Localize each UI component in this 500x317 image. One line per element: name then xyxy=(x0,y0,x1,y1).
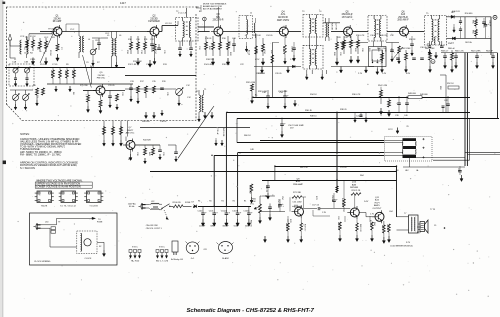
svg-text:R44 82K: R44 82K xyxy=(142,121,150,123)
svg-text:C9 05: C9 05 xyxy=(64,70,66,75)
svg-text:R7 10K: R7 10K xyxy=(50,70,52,77)
svg-text:D2: D2 xyxy=(452,43,454,45)
svg-text:1ST AM IF: 1ST AM IF xyxy=(342,16,353,19)
svg-text:R60 1K: R60 1K xyxy=(244,135,251,137)
svg-text:R71 33K: R71 33K xyxy=(293,192,302,194)
svg-text:2.1V: 2.1V xyxy=(358,73,363,75)
svg-text:SB, 5, 7, & M: SB, 5, 7, & M xyxy=(156,261,169,263)
svg-text:A1F: A1F xyxy=(401,13,406,16)
svg-text:R38 10: R38 10 xyxy=(310,116,317,118)
svg-text:T7 29: T7 29 xyxy=(430,209,436,211)
svg-text:1 C0, 1.8: 1 C0, 1.8 xyxy=(178,12,187,14)
svg-text:12: 12 xyxy=(250,13,252,15)
svg-text:C60 uF: C60 uF xyxy=(386,224,388,231)
svg-text:C53 .02: C53 .02 xyxy=(265,185,267,193)
svg-text:60 Hz: 60 Hz xyxy=(129,206,134,208)
svg-text:2SB77: 2SB77 xyxy=(127,130,134,132)
svg-text:C55 .0082: C55 .0082 xyxy=(292,201,302,203)
svg-text:R56 680: R56 680 xyxy=(465,13,473,15)
svg-text:C51 05: C51 05 xyxy=(340,167,347,169)
svg-text:C57 .05: C57 .05 xyxy=(312,205,320,207)
svg-text:R12 1.8K: R12 1.8K xyxy=(128,64,137,66)
svg-text:AMPL: AMPL xyxy=(374,204,381,207)
svg-text:C3.01 MERKER MODEL A: C3.01 MERKER MODEL A xyxy=(390,245,413,248)
svg-text:R80 100: R80 100 xyxy=(359,224,361,232)
svg-text:C24 05: C24 05 xyxy=(266,35,273,37)
svg-text:C102A: C102A xyxy=(221,209,228,212)
svg-text:TA, 7610: TA, 7610 xyxy=(131,260,140,263)
svg-text:R58 2.2K: R58 2.2K xyxy=(352,190,361,192)
svg-text:D10 D11: D10 D11 xyxy=(452,11,461,13)
svg-text:C27 9R: C27 9R xyxy=(334,23,336,30)
svg-text:C14 05: C14 05 xyxy=(146,64,153,66)
svg-text:C38 01: C38 01 xyxy=(160,121,167,123)
svg-text:R60 12EK: R60 12EK xyxy=(425,48,435,50)
svg-text:R9 1K: R9 1K xyxy=(71,70,73,76)
svg-text:50MF: 50MF xyxy=(234,226,240,228)
svg-text:R54 1.2M: R54 1.2M xyxy=(378,85,387,87)
svg-text:HI-FI: HI-FI xyxy=(375,202,380,204)
svg-text:C54 10MF: C54 10MF xyxy=(277,199,279,209)
svg-text:2SC76-R: 2SC76-R xyxy=(398,17,408,19)
svg-text:FUSE: FUSE xyxy=(97,221,103,223)
svg-text:R6 470: R6 470 xyxy=(282,46,284,52)
svg-text:R14 6.8K: R14 6.8K xyxy=(204,64,213,66)
svg-text:R22 10K: R22 10K xyxy=(253,35,261,37)
svg-text:R55: R55 xyxy=(472,20,474,23)
svg-text:R40 8.2K: R40 8.2K xyxy=(222,128,224,137)
svg-text:R66 1K: R66 1K xyxy=(249,220,251,227)
svg-text:R1: R1 xyxy=(209,201,211,203)
svg-text:R15 330: R15 330 xyxy=(80,85,88,87)
svg-text:FUSE: FUSE xyxy=(185,202,191,204)
svg-text:R58 12EK: R58 12EK xyxy=(401,48,411,50)
svg-text:R18 150: R18 150 xyxy=(222,64,230,66)
svg-text:FM MIXER: FM MIXER xyxy=(148,21,160,23)
svg-text:2SC48: 2SC48 xyxy=(98,75,105,77)
svg-text:R5 10K: R5 10K xyxy=(40,64,47,66)
svg-text:120V AC: 120V AC xyxy=(128,202,137,205)
svg-text:C34 10MF: C34 10MF xyxy=(278,91,288,93)
svg-text:R58 4.7: R58 4.7 xyxy=(441,51,449,53)
svg-text:R82 2.7: R82 2.7 xyxy=(381,225,383,233)
svg-text:ON VOL CONT 1: ON VOL CONT 1 xyxy=(146,228,163,230)
svg-text:PRE-AMP: PRE-AMP xyxy=(293,183,304,186)
svg-text:AJ Emby G3: AJ Emby G3 xyxy=(171,258,184,261)
svg-text:DRIVER: DRIVER xyxy=(350,187,359,189)
svg-text:D-2V: D-2V xyxy=(364,201,369,203)
svg-text:NOTES:: NOTES: xyxy=(20,133,30,136)
svg-text:C16 01: C16 01 xyxy=(205,38,212,40)
svg-text:C1C: C1C xyxy=(187,97,192,99)
svg-text:R4 2.2K: R4 2.2K xyxy=(102,126,104,134)
svg-text:RF AMP: RF AMP xyxy=(53,20,62,23)
svg-text:R48 680: R48 680 xyxy=(408,93,417,95)
svg-text:R52 1K: R52 1K xyxy=(447,83,454,85)
svg-text:100MF: 100MF xyxy=(199,226,206,228)
svg-text:S2: S2 xyxy=(99,246,101,248)
svg-text:OUTPUT: OUTPUT xyxy=(373,208,383,210)
svg-text:T6&T8: T6&T8 xyxy=(41,205,48,207)
svg-text:1417: 1417 xyxy=(120,1,126,5)
svg-text:3.2V: 3.2V xyxy=(406,242,411,244)
svg-text:L 1: L 1 xyxy=(25,37,28,39)
svg-text:C37 uF: C37 uF xyxy=(111,126,113,133)
svg-text:117V: 117V xyxy=(388,129,393,131)
svg-text:R68 270: R68 270 xyxy=(285,223,287,231)
svg-text:R48 680: R48 680 xyxy=(420,94,428,96)
svg-text:R66 uF: R66 uF xyxy=(448,48,456,50)
svg-text:E B C: E B C xyxy=(159,247,165,249)
svg-text:A0B: A0B xyxy=(352,183,357,186)
svg-text:R1: R1 xyxy=(233,201,235,203)
svg-text:R64 uF: R64 uF xyxy=(486,51,494,53)
svg-text:A4G: A4G xyxy=(296,180,301,183)
svg-text:R45 82K: R45 82K xyxy=(119,126,121,134)
svg-text:R75 10K: R75 10K xyxy=(341,198,343,206)
svg-text:R60 1.5K: R60 1.5K xyxy=(455,51,464,53)
svg-text:R44 82K: R44 82K xyxy=(143,140,151,142)
svg-text:R36 JD: R36 JD xyxy=(305,110,312,112)
svg-text:CLOCK: CLOCK xyxy=(85,258,93,260)
svg-text:2.2V: 2.2V xyxy=(90,66,95,68)
svg-text:Schematic Diagram - CHS-87252: Schematic Diagram - CHS-87252 & RHS-FHT-… xyxy=(187,308,315,314)
svg-text:T9: T9 xyxy=(58,222,60,224)
svg-text:C3 01: C3 01 xyxy=(30,59,36,61)
svg-text:E B C: E B C xyxy=(132,247,138,249)
svg-text:2ND AM IF: 2ND AM IF xyxy=(397,19,409,22)
svg-text:1.1V: 1.1V xyxy=(290,59,295,61)
svg-text:R1: R1 xyxy=(221,201,223,203)
svg-text:AS OF ALIGNMENT: AS OF ALIGNMENT xyxy=(203,7,223,10)
svg-text:T1 & B B: T1 & B B xyxy=(89,205,98,207)
svg-text:R46 330: R46 330 xyxy=(380,35,388,37)
svg-text:R12 1.8K: R12 1.8K xyxy=(133,61,142,63)
svg-text:AM FM IF: AM FM IF xyxy=(278,16,289,19)
svg-text:C40 uF: C40 uF xyxy=(489,20,491,27)
svg-text:2SC9D: 2SC9D xyxy=(150,18,158,20)
svg-text:R62 12EK: R62 12EK xyxy=(471,51,481,53)
svg-text:R1: R1 xyxy=(244,201,246,203)
svg-text:FM OSC: FM OSC xyxy=(97,78,106,80)
svg-text:R2 1K: R2 1K xyxy=(49,50,51,56)
svg-text:S = SILICON: S = SILICON xyxy=(20,166,35,170)
svg-text:C102C: C102C xyxy=(243,210,250,212)
svg-text:L13 1.8: L13 1.8 xyxy=(165,23,173,25)
svg-text:ON-OFF SW: ON-OFF SW xyxy=(146,225,158,227)
svg-text:R62 150: R62 150 xyxy=(300,167,308,169)
svg-text:C58 uF: C58 uF xyxy=(331,195,333,202)
svg-text:M-AN2: M-AN2 xyxy=(222,257,229,260)
svg-text:R58 2R: R58 2R xyxy=(409,39,416,41)
svg-text:C31 05: C31 05 xyxy=(108,85,115,87)
svg-text:C36 uF: C36 uF xyxy=(216,128,218,135)
svg-text:CLOCK WIRING: CLOCK WIRING xyxy=(34,261,51,263)
svg-text:3.2V: 3.2V xyxy=(128,159,133,161)
svg-text:LOWER VOLTAGE IS IN AM POSITIO: LOWER VOLTAGE IS IN AM POSITION xyxy=(36,185,81,188)
svg-text:30MF: 30MF xyxy=(210,226,216,228)
svg-text:R18 150: R18 150 xyxy=(206,59,215,61)
svg-text:AMP 1726V: AMP 1726V xyxy=(277,19,290,22)
svg-text:R74 180: R74 180 xyxy=(337,222,339,230)
svg-text:LBC: LBC xyxy=(405,170,409,172)
svg-text:R32 4.5M: R32 4.5M xyxy=(258,91,267,93)
svg-text:OR: OR xyxy=(204,249,208,251)
svg-text:300MF: 300MF xyxy=(222,226,229,228)
svg-text:R34 1K: R34 1K xyxy=(310,94,317,96)
svg-text:R26 4R: R26 4R xyxy=(331,23,333,30)
svg-text:C1B: C1B xyxy=(24,62,29,64)
svg-text:FM - 88MC TO 108MC, IF - 10.7: FM - 88MC TO 108MC, IF - 10.7MC xyxy=(20,152,61,156)
svg-text:R38 JD: R38 JD xyxy=(340,109,347,111)
svg-text:R36 4.7K: R36 4.7K xyxy=(352,94,361,96)
svg-text:C30 05: C30 05 xyxy=(291,46,293,52)
svg-text:R30 4.7K: R30 4.7K xyxy=(356,35,365,37)
svg-text:C102B: C102B xyxy=(232,210,239,212)
svg-text:C7 05: C7 05 xyxy=(52,64,58,66)
svg-text:C36 05: C36 05 xyxy=(420,47,427,49)
svg-text:R1: R1 xyxy=(198,201,200,203)
svg-text:0.8V: 0.8V xyxy=(406,73,411,75)
svg-text:R32 4.5M: R32 4.5M xyxy=(246,82,255,84)
svg-text:R100 3D: R100 3D xyxy=(173,202,182,204)
svg-text:2SC48: 2SC48 xyxy=(53,18,61,20)
svg-text:R62 JA: R62 JA xyxy=(465,41,472,44)
svg-text:AM OSC: AM OSC xyxy=(126,132,135,135)
svg-text:T2, T3, T4 & L12: T2, T3, T4 & L12 xyxy=(60,205,76,207)
svg-text:1.4V: 1.4V xyxy=(382,73,387,75)
svg-text:R26 680: R26 680 xyxy=(256,73,264,75)
svg-text:R56: R56 xyxy=(472,30,474,33)
svg-text:R65 4.7M: R65 4.7M xyxy=(249,185,251,194)
svg-text:R1 1K: R1 1K xyxy=(30,36,36,38)
svg-text:C26 05: C26 05 xyxy=(275,73,282,75)
svg-text:C1C: C1C xyxy=(186,85,191,87)
